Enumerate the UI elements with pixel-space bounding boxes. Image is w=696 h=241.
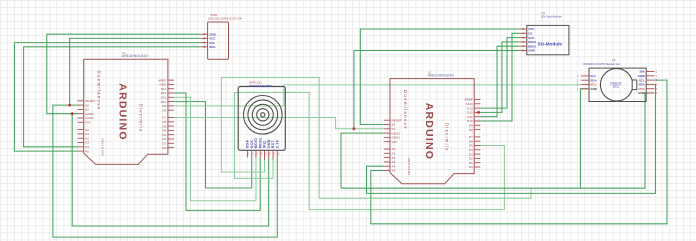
oled PCB1 pins GND VCC SCL SDA [200,32,216,49]
wire SD CS - U2 D10 [480,33,519,121]
rtc left pins SCL SDA VCC GND [577,74,598,91]
arduino U2 right pins [464,98,480,170]
wire net I2C SCL: U2 A5 - RTC SCL right [371,80,667,224]
rtc module U3 DS3231 [584,58,647,101]
arduino U2 left pins [384,118,402,172]
svg-text:D0: D0 [162,146,166,150]
svg-text:SDA: SDA [209,45,216,49]
sd module pins VCC CS SCK MOSI MISO GND [519,27,537,53]
wire SD MOSI - U2 D12 [480,42,519,113]
svg-text:PCB1: PCB1 [211,13,218,17]
svg-text:ARDUINO: ARDUINO [423,103,435,160]
svg-text:SD-Module: SD-Module [538,42,563,47]
junction U1 GND2 [71,112,74,115]
arduino U1 right pins [158,78,174,150]
svg-text:UNO R1R2: UNO R1R2 [407,158,411,176]
svg-text:A5: A5 [392,169,396,173]
wire RFID SCK pin2 - top run - GND rail join [221,77,531,198]
wire U1 D9 - RTC VCC left [174,85,581,106]
wire SD SCK - U2 D13 [480,38,519,109]
wire SD MISO - U2 D11 [480,46,519,117]
svg-text:3.3V: 3.3V [275,139,279,148]
oled display PCB1 SSD1306 [208,13,243,59]
rfid MFRC522 pins 1-8 SDA SCK MOSI MISO IRQ GND RST 3.3V [246,138,280,160]
wire SD GND - U2 5V junction [354,51,519,129]
svg-text:SSD1306-128X64-OLED-0.96: SSD1306-128X64-OLED-0.96 [208,17,243,21]
svg-text:D0: D0 [469,165,473,169]
wire U1 D10 - RFID SDA pin1 [174,102,252,188]
svg-text:A5: A5 [85,149,89,153]
svg-text:DS3231 I2C RTC Module old: DS3231 I2C RTC Module old [584,62,621,66]
svg-text:VIN: VIN [392,140,397,144]
svg-text:RTC: RTC [613,85,620,89]
svg-text:Duemilanove: Duemilanove [97,71,102,111]
junction U2 5V [353,127,356,130]
wire net SCL: OLED SCL - U1 A5 [14,43,200,152]
wire U1 D12 - RFID MISO pin4 [174,93,260,210]
svg-text:ARDUINOUNO: ARDUINOUNO [122,54,148,58]
svg-text:GND: GND [590,87,598,91]
rfid reader MFRC522 [238,81,285,151]
svg-text:GND: GND [528,49,536,53]
wire net GND: OLED GND - U1 GND2 - RFID GND pin6 [47,34,269,226]
svg-text:Diecimila: Diecimila [445,123,450,152]
svg-text:GND: GND [638,91,646,95]
junction U2 D12 [477,111,480,114]
wire RFID RST pin7 - U2 D5 [235,93,505,210]
svg-text:UNO R1R2: UNO R1R2 [101,138,105,156]
wire RTC GND left - GND rail [580,89,589,188]
wire U1 D11 - RFID MOSI pin3 [174,97,256,200]
wire net I2C SDA: U2 A4 - RTC SDA right [367,84,656,193]
svg-text:ARDUINO: ARDUINO [117,83,129,140]
wire U2 3V - SD VCC [360,29,519,125]
svg-text:SD-Card-Module: SD-Card-Module [541,15,562,19]
arduino U2 body [390,70,474,183]
wire net SDA: OLED SDA - U1 A4 [24,47,201,147]
sd card module U2 [527,11,569,55]
svg-text:Duemilanove: Duemilanove [403,90,408,130]
arduino U1 left pins [78,99,96,153]
wire net 3V3: OLED VCC - U1 3V - RFID 3.3V pin8 [53,38,277,237]
wire U1 D7 - U2 5V [174,118,384,129]
svg-text:ARDUINOUNO: ARDUINOUNO [428,73,454,77]
svg-text:Diecimila: Diecimila [138,104,143,133]
junction U1 3V [68,104,71,107]
svg-text:VIN: VIN [85,121,90,125]
arduino U1 body [84,51,168,164]
svg-text:D8: D8 [469,128,473,132]
wire net GND rail: U2 GND2 - RTC GND right [341,93,654,188]
svg-text:D8: D8 [162,108,166,112]
rtc right pins 32K SQW SCL SDA VCC GND [638,70,658,96]
svg-text:MFRC522fjdfRW: MFRC522fjdfRW [249,84,272,88]
